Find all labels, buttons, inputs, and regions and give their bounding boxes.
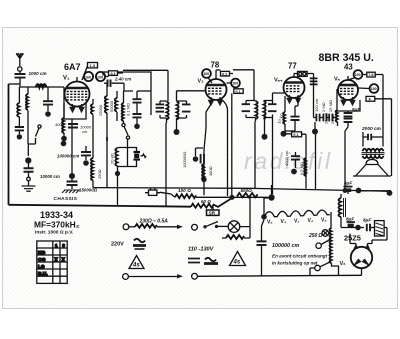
svg-text:V₄: V₄ [308, 218, 314, 224]
svg-text:SR: SR [209, 211, 216, 216]
switch mains [203, 222, 228, 229]
svg-text:0.1 MΩ: 0.1 MΩ [126, 103, 131, 116]
electrode arrows 43 [341, 97, 346, 105]
node dot switch column [115, 171, 120, 176]
wire to earth column [27, 144, 29, 156]
trimmer 2.40cm [104, 80, 133, 92]
svg-text:V₁: V₁ [294, 219, 299, 225]
svg-text:1000 cm: 1000 cm [29, 71, 47, 76]
svg-text:60 Ω: 60 Ω [201, 199, 211, 204]
heater chain coils V2..V6 [264, 210, 330, 217]
wire arrow row2 [129, 276, 179, 278]
screen circle 100 78 [227, 79, 240, 88]
wire antenna tee [9, 83, 21, 85]
box oscillator section [103, 72, 151, 115]
node dot IF1 secondary bottom [176, 118, 178, 130]
terminal aerial bottom [315, 262, 331, 271]
node dot cathode 78 [201, 177, 206, 182]
power row 2: terminal [123, 274, 129, 280]
node dot B- right [268, 194, 274, 200]
wire arrow row1 [157, 226, 179, 228]
svg-text:100: 100 [203, 72, 209, 76]
grid cap box L3 [82, 63, 98, 81]
svg-text:20 kΩ: 20 kΩ [110, 153, 115, 164]
wire switch through-line [127, 140, 129, 167]
box cathode 43 [337, 89, 360, 111]
box F output [366, 96, 392, 146]
coil col x93 top [91, 99, 93, 117]
wire IF2 primary down [254, 118, 257, 189]
svg-text:0.1: 0.1 [111, 72, 116, 76]
svg-text:160: 160 [85, 75, 91, 79]
coil switch column [115, 148, 117, 166]
svg-text:KG: KG [38, 250, 45, 256]
svg-text:CHASSIS: CHASSIS [54, 196, 78, 202]
switch earth [27, 177, 31, 181]
terminal aerial top [316, 239, 331, 248]
svg-text:8μF: 8μF [352, 107, 360, 112]
warning triangle left [129, 256, 144, 269]
coil L1 horizontal [36, 84, 46, 87]
coil osc grid [105, 83, 107, 137]
output transformer [362, 137, 385, 158]
box 0.1 77 [285, 132, 306, 189]
wire B- rail [93, 188, 391, 192]
wire osc box bottom [137, 90, 151, 92]
svg-text:43: 43 [344, 63, 353, 72]
svg-text:V₁: V₁ [63, 76, 70, 82]
svg-text:480Ω: 480Ω [208, 166, 213, 176]
resistor AVC 20000 [91, 117, 93, 188]
svg-text:230Ω – 0.5A: 230Ω – 0.5A [139, 219, 169, 225]
wire filter rail right [361, 190, 391, 192]
svg-text:25000: 25000 [98, 104, 103, 116]
wave switch [122, 123, 130, 139]
switch band left [36, 125, 42, 137]
tube 78 V2 [206, 70, 227, 100]
node dot filter2 [355, 225, 361, 231]
svg-text:2.40 cm: 2.40 cm [114, 77, 131, 82]
svg-text:10000 cm: 10000 cm [40, 174, 60, 179]
wire antenna coil feed [20, 84, 64, 87]
node dot antenna coil bottom [17, 134, 22, 139]
svg-text:4000 cm: 4000 cm [284, 150, 289, 166]
svg-text:V₂: V₂ [198, 79, 205, 85]
resistor 250 ohm right [330, 212, 339, 275]
wire 78 plate top link [216, 70, 254, 101]
wire left frame [8, 84, 10, 205]
svg-text:8μF: 8μF [363, 218, 371, 223]
wire chassis bus [9, 205, 192, 207]
grid circle 160 [84, 72, 93, 81]
svg-text:In kortsluiting op net: In kortsluiting op net [272, 261, 318, 266]
grid circle 100 [96, 72, 105, 81]
svg-text:250 Ω: 250 Ω [308, 233, 322, 239]
svg-text:En avont circuit ontvangt: En avont circuit ontvangt [272, 254, 328, 259]
svg-text:100 cm: 100 cm [314, 98, 319, 112]
node dot decoupling [193, 156, 199, 162]
wire heater feed from B- dot [264, 185, 272, 215]
terminal row2 right [192, 273, 198, 279]
svg-text:100: 100 [232, 82, 238, 86]
svg-text:0.5 MΩ: 0.5 MΩ [299, 162, 304, 175]
box 0.2 78 [221, 71, 230, 76]
wire 78 cathode column [204, 104, 211, 195]
resistor column x29 [26, 87, 28, 112]
svg-text:1: 1 [55, 243, 58, 248]
capacitor 10000cm bypass [68, 124, 78, 128]
svg-text:Instr. 1000 Ω p.V.: Instr. 1000 Ω p.V. [35, 230, 73, 236]
ground earth [22, 186, 36, 191]
svg-text:110 -130V: 110 -130V [188, 247, 215, 253]
coupling caps row to 43 [314, 111, 337, 122]
node dot 77 cathode [281, 131, 287, 137]
svg-text:50000: 50000 [109, 100, 114, 112]
wire avc rail resistor row [160, 192, 268, 197]
electrode arrows 78 [209, 97, 214, 105]
svg-text:B.U.: B.U. [38, 271, 48, 277]
wire IF2 cap column to heater dot [272, 118, 274, 195]
resistor 600ohm on B- rail [237, 193, 258, 197]
alignment table [37, 241, 67, 283]
grid circle 100 78 [202, 69, 212, 83]
box 0.1 78 cathode [234, 89, 243, 94]
capacitor IF2 primary [245, 101, 247, 118]
coil IF2 primary [256, 101, 258, 119]
terminal row1 right [192, 224, 198, 230]
wire osc coil col down [28, 112, 36, 144]
node dot filter1 [356, 188, 362, 194]
resistor 0.5M [304, 158, 306, 176]
svg-text:8μF: 8μF [346, 217, 354, 222]
svg-text:MF=370kH₂: MF=370kH₂ [34, 220, 80, 230]
tube 43 V4 [338, 76, 358, 100]
svg-text:250Ω: 250Ω [97, 169, 102, 179]
capacitor filter 3 [367, 224, 375, 231]
capacitor IF1 primary [159, 101, 161, 118]
svg-text:77: 77 [288, 62, 297, 71]
svg-text:25000: 25000 [324, 112, 329, 124]
svg-text:V₃: V₃ [281, 219, 287, 225]
capacitor mains bypass [257, 226, 267, 276]
wire 77 plate link [294, 74, 314, 118]
svg-text:8: 8 [62, 243, 65, 248]
svg-text:100000 cm: 100000 cm [57, 154, 79, 159]
wire bottom row right end [310, 268, 315, 276]
mains plug symbol [133, 239, 146, 249]
svg-text:100: 100 [97, 75, 103, 79]
tube 77 V3 [284, 74, 305, 99]
IF transformer 1 can [156, 101, 191, 119]
capacitor cathode 43 a [344, 111, 353, 116]
capacitor x48 [43, 87, 53, 117]
wire IF2 secondary to 77 grid [273, 93, 285, 101]
svg-text:60000: 60000 [24, 97, 29, 109]
chassis ground [62, 190, 80, 193]
svg-text:0.1: 0.1 [236, 90, 241, 94]
svg-text:X: X [61, 257, 65, 263]
wire 78 screen column [231, 93, 233, 196]
wire top link to IF1 [118, 70, 169, 101]
wire row2 to right [198, 275, 362, 276]
svg-text:OG: OG [38, 257, 46, 263]
resistor 10k cathode 77 [283, 96, 285, 131]
svg-text:LG: LG [38, 264, 45, 270]
equals sign [188, 259, 200, 263]
capacitor plate 77 [310, 78, 318, 84]
capacitor earth [24, 163, 34, 177]
capacitor 8uF filter 1 [344, 185, 353, 194]
svg-text:100: 100 [355, 73, 361, 77]
svg-text:100000 cm: 100000 cm [272, 243, 299, 249]
node dot chassis column [69, 173, 75, 179]
svg-text:400Ω: 400Ω [55, 122, 65, 127]
svg-text:6A7: 6A7 [64, 62, 81, 72]
power row 1: terminal [123, 224, 129, 230]
svg-text:7.8: 7.8 [368, 73, 373, 77]
svg-text:100 Ω: 100 Ω [178, 188, 191, 193]
svg-text:4s: 4s [132, 263, 140, 269]
speaker [353, 160, 391, 177]
resistor 400ohm column x64 [61, 87, 67, 141]
svg-text:2 MΩ: 2 MΩ [321, 102, 326, 112]
grid circle 100 43 [348, 70, 362, 80]
wire speaker right frame [391, 146, 393, 176]
capacitor 4000cm [291, 152, 300, 174]
svg-text:Vₙ: Vₙ [334, 77, 341, 83]
electrode arrows 6A7 [70, 104, 75, 112]
svg-text:8μF: 8μF [344, 181, 352, 186]
capacitor antenna coil bottom [15, 127, 24, 130]
coil IF2 secondary [264, 101, 266, 119]
svg-text:25Z5: 25Z5 [344, 234, 361, 243]
svg-text:100000Ω: 100000Ω [182, 152, 187, 168]
svg-text:150000Ω: 150000Ω [79, 188, 98, 193]
plug symbol 2 [204, 258, 218, 264]
svg-text:1.3: 1.3 [90, 63, 96, 68]
resistor 600ohm row2 [175, 194, 196, 198]
resistor osc column continue [106, 137, 108, 188]
pilot lamp dial [322, 230, 329, 237]
tube 25Z5 V6 [350, 234, 372, 276]
node dot earth column [25, 157, 31, 163]
capacitor IF1 secondary [186, 101, 188, 118]
capacitor 8uF filter 2 [341, 222, 364, 228]
padder capacitor top [133, 91, 142, 113]
coil osc anode [115, 91, 117, 121]
capacitor 2000cm tone [363, 132, 383, 140]
box grid caps 77 [298, 71, 308, 76]
capacitor decoupling [196, 148, 205, 164]
IF transformer 2 can [242, 101, 277, 119]
resistor boxed bleeder [375, 221, 385, 236]
wire row2 [191, 198, 232, 208]
resistor below lamp [222, 227, 250, 239]
choke field coil [339, 194, 346, 228]
svg-text:250Ω: 250Ω [330, 114, 335, 124]
node dot heater chain start [261, 214, 267, 220]
svg-text:220V: 220V [111, 241, 124, 247]
svg-text:190: 190 [371, 87, 377, 91]
screen circle 190 [358, 84, 378, 93]
node dot IF2 secondary [264, 118, 266, 135]
svg-text:0.1: 0.1 [293, 133, 298, 137]
node dot rail x345 [343, 188, 348, 193]
svg-text:0.2: 0.2 [222, 72, 227, 76]
fuse holder on rail [145, 188, 160, 195]
svg-text:V₂: V₂ [267, 220, 273, 226]
box tone cap loop [118, 148, 147, 167]
svg-text:V₆: V₆ [340, 261, 347, 267]
node dot 77 plate row [312, 129, 318, 135]
warning triangle right [230, 252, 246, 266]
svg-text:Vₙ₊: Vₙ₊ [274, 78, 283, 84]
svg-text:1933-34: 1933-34 [40, 210, 73, 220]
padder capacitor bottom [133, 114, 142, 129]
coil antenna secondary [17, 87, 19, 126]
resistor col x123 [122, 91, 124, 123]
svg-text:500Ω: 500Ω [241, 188, 253, 193]
capacitor cathode 43 b [344, 119, 353, 190]
wire switch column to bus [117, 166, 119, 206]
tube 6A7 V1 [65, 77, 90, 107]
capacitor chassis [67, 182, 78, 186]
capacitor IF2 secondary [272, 101, 274, 118]
box SR [207, 207, 220, 216]
box 1.8 43 [367, 72, 375, 77]
svg-text:25 MΩ: 25 MΩ [328, 100, 333, 112]
wire cathode column x72 [71, 119, 73, 176]
wire 43 top link [363, 75, 384, 138]
box oscillator anode [64, 103, 86, 119]
wire bleeder to tube [372, 228, 387, 241]
pilot lamp mains [228, 196, 250, 232]
grid resistor 43 [336, 110, 338, 126]
coil IF1 primary [167, 102, 169, 120]
wire chain left drop [262, 220, 265, 226]
svg-text:V₅: V₅ [321, 218, 327, 224]
node dot AVC left [61, 141, 67, 147]
capacitor antenna 1000cm [15, 71, 26, 84]
electrode arrows 77 [287, 95, 292, 103]
svg-text:2000 cm: 2000 cm [361, 126, 382, 132]
node dot below speaker [387, 190, 393, 196]
coil IF1 secondary [177, 102, 179, 120]
box 0.1 top [109, 71, 118, 76]
capacitor AVC bypass [81, 146, 91, 166]
capacitor cathode 77 [285, 96, 300, 131]
resistor line cord [129, 226, 135, 228]
wire IF1 primary down to chassis bus [165, 118, 168, 206]
svg-text:78: 78 [211, 61, 220, 70]
wire IF1 secondary to 78 grid [177, 91, 207, 101]
resistor 480ohm [202, 164, 204, 180]
svg-text:4s: 4s [233, 260, 241, 266]
svg-text:X: X [54, 257, 58, 263]
antenna [16, 53, 23, 71]
